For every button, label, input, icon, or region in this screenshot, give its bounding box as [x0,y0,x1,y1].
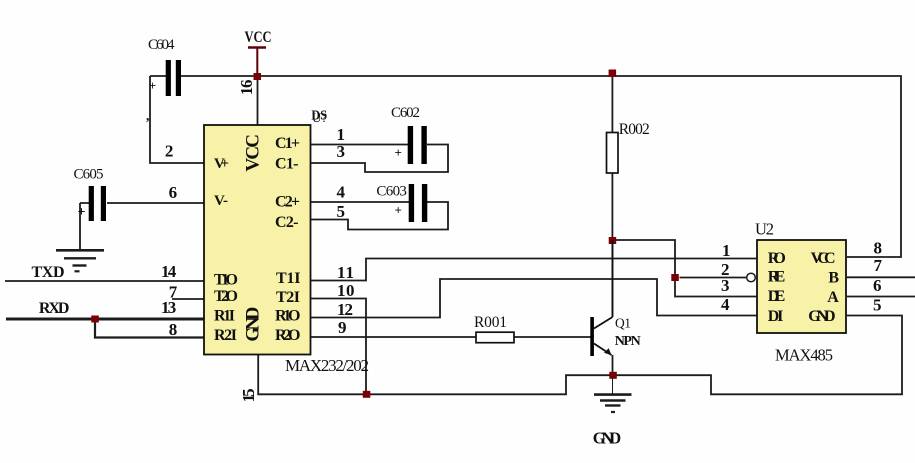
svg-text:2: 2 [165,142,174,161]
svg-text:Q1: Q1 [615,316,631,331]
svg-text:VCC: VCC [811,250,836,267]
svg-text:C2-: C2- [275,214,299,231]
svg-text:R2O: R2O [275,327,301,344]
svg-text:B: B [828,270,839,287]
svg-text:1: 1 [722,241,731,260]
svg-text:14: 14 [161,262,177,281]
svg-text:C1-: C1- [275,156,299,173]
svg-text:R1I: R1I [214,308,235,325]
svg-text:R002: R002 [619,121,650,138]
svg-text:GND: GND [243,307,264,342]
svg-text:DI: DI [768,308,784,325]
svg-text:VCC: VCC [245,29,272,46]
svg-text:U2: U2 [755,220,774,239]
svg-text:+: + [395,203,402,218]
svg-text:5: 5 [337,202,346,221]
svg-text:8: 8 [874,239,883,258]
svg-text:15: 15 [239,388,258,402]
svg-text:RO: RO [768,250,786,267]
svg-text:+: + [78,205,86,220]
svg-text:12: 12 [337,300,353,319]
svg-text:V-: V- [214,193,228,209]
svg-text:NPN: NPN [615,334,641,349]
svg-text:T2I: T2I [276,289,300,306]
svg-text:,: , [146,108,149,123]
svg-text:T2O: T2O [214,288,238,305]
svg-text:13: 13 [161,298,176,317]
svg-text:GND: GND [808,308,835,325]
svg-text:7: 7 [874,256,883,275]
svg-text:+: + [395,145,402,160]
svg-text:DS: DS [311,108,327,123]
svg-text:5: 5 [873,296,882,315]
svg-text:R2I: R2I [214,327,237,344]
svg-text:C603: C603 [376,183,407,199]
svg-text:C602: C602 [391,105,420,121]
svg-text:A: A [827,289,839,306]
svg-text:9: 9 [338,318,347,337]
svg-text:11: 11 [337,263,354,282]
svg-text:V+: V+ [214,156,229,172]
svg-text:6: 6 [169,183,178,202]
svg-text:VCC: VCC [243,134,264,172]
svg-text:MAX232/202: MAX232/202 [285,356,369,375]
svg-text:C1+: C1+ [275,135,300,152]
svg-text:10: 10 [337,281,355,300]
svg-text:RE: RE [768,269,786,286]
svg-text:MAX485: MAX485 [775,346,833,365]
svg-text:TXD: TXD [32,264,65,281]
svg-text:R1O: R1O [275,308,301,325]
svg-text:3: 3 [721,276,730,295]
svg-text:4: 4 [337,183,346,202]
svg-text:+: + [149,79,156,93]
svg-text:C2+: C2+ [275,194,300,211]
svg-text:DE: DE [768,288,786,305]
svg-text:6: 6 [873,276,882,295]
svg-text:R001: R001 [474,314,507,331]
svg-text:GND: GND [593,429,622,448]
svg-text:RXD: RXD [39,300,70,317]
svg-text:16: 16 [237,79,256,95]
svg-text:4: 4 [721,295,730,314]
svg-text:C605: C605 [74,167,104,183]
svg-text:T1I: T1I [276,270,301,287]
svg-text:C604: C604 [148,37,175,53]
svg-text:T1O: T1O [214,272,238,289]
svg-text:3: 3 [337,142,346,161]
svg-text:8: 8 [169,320,178,339]
